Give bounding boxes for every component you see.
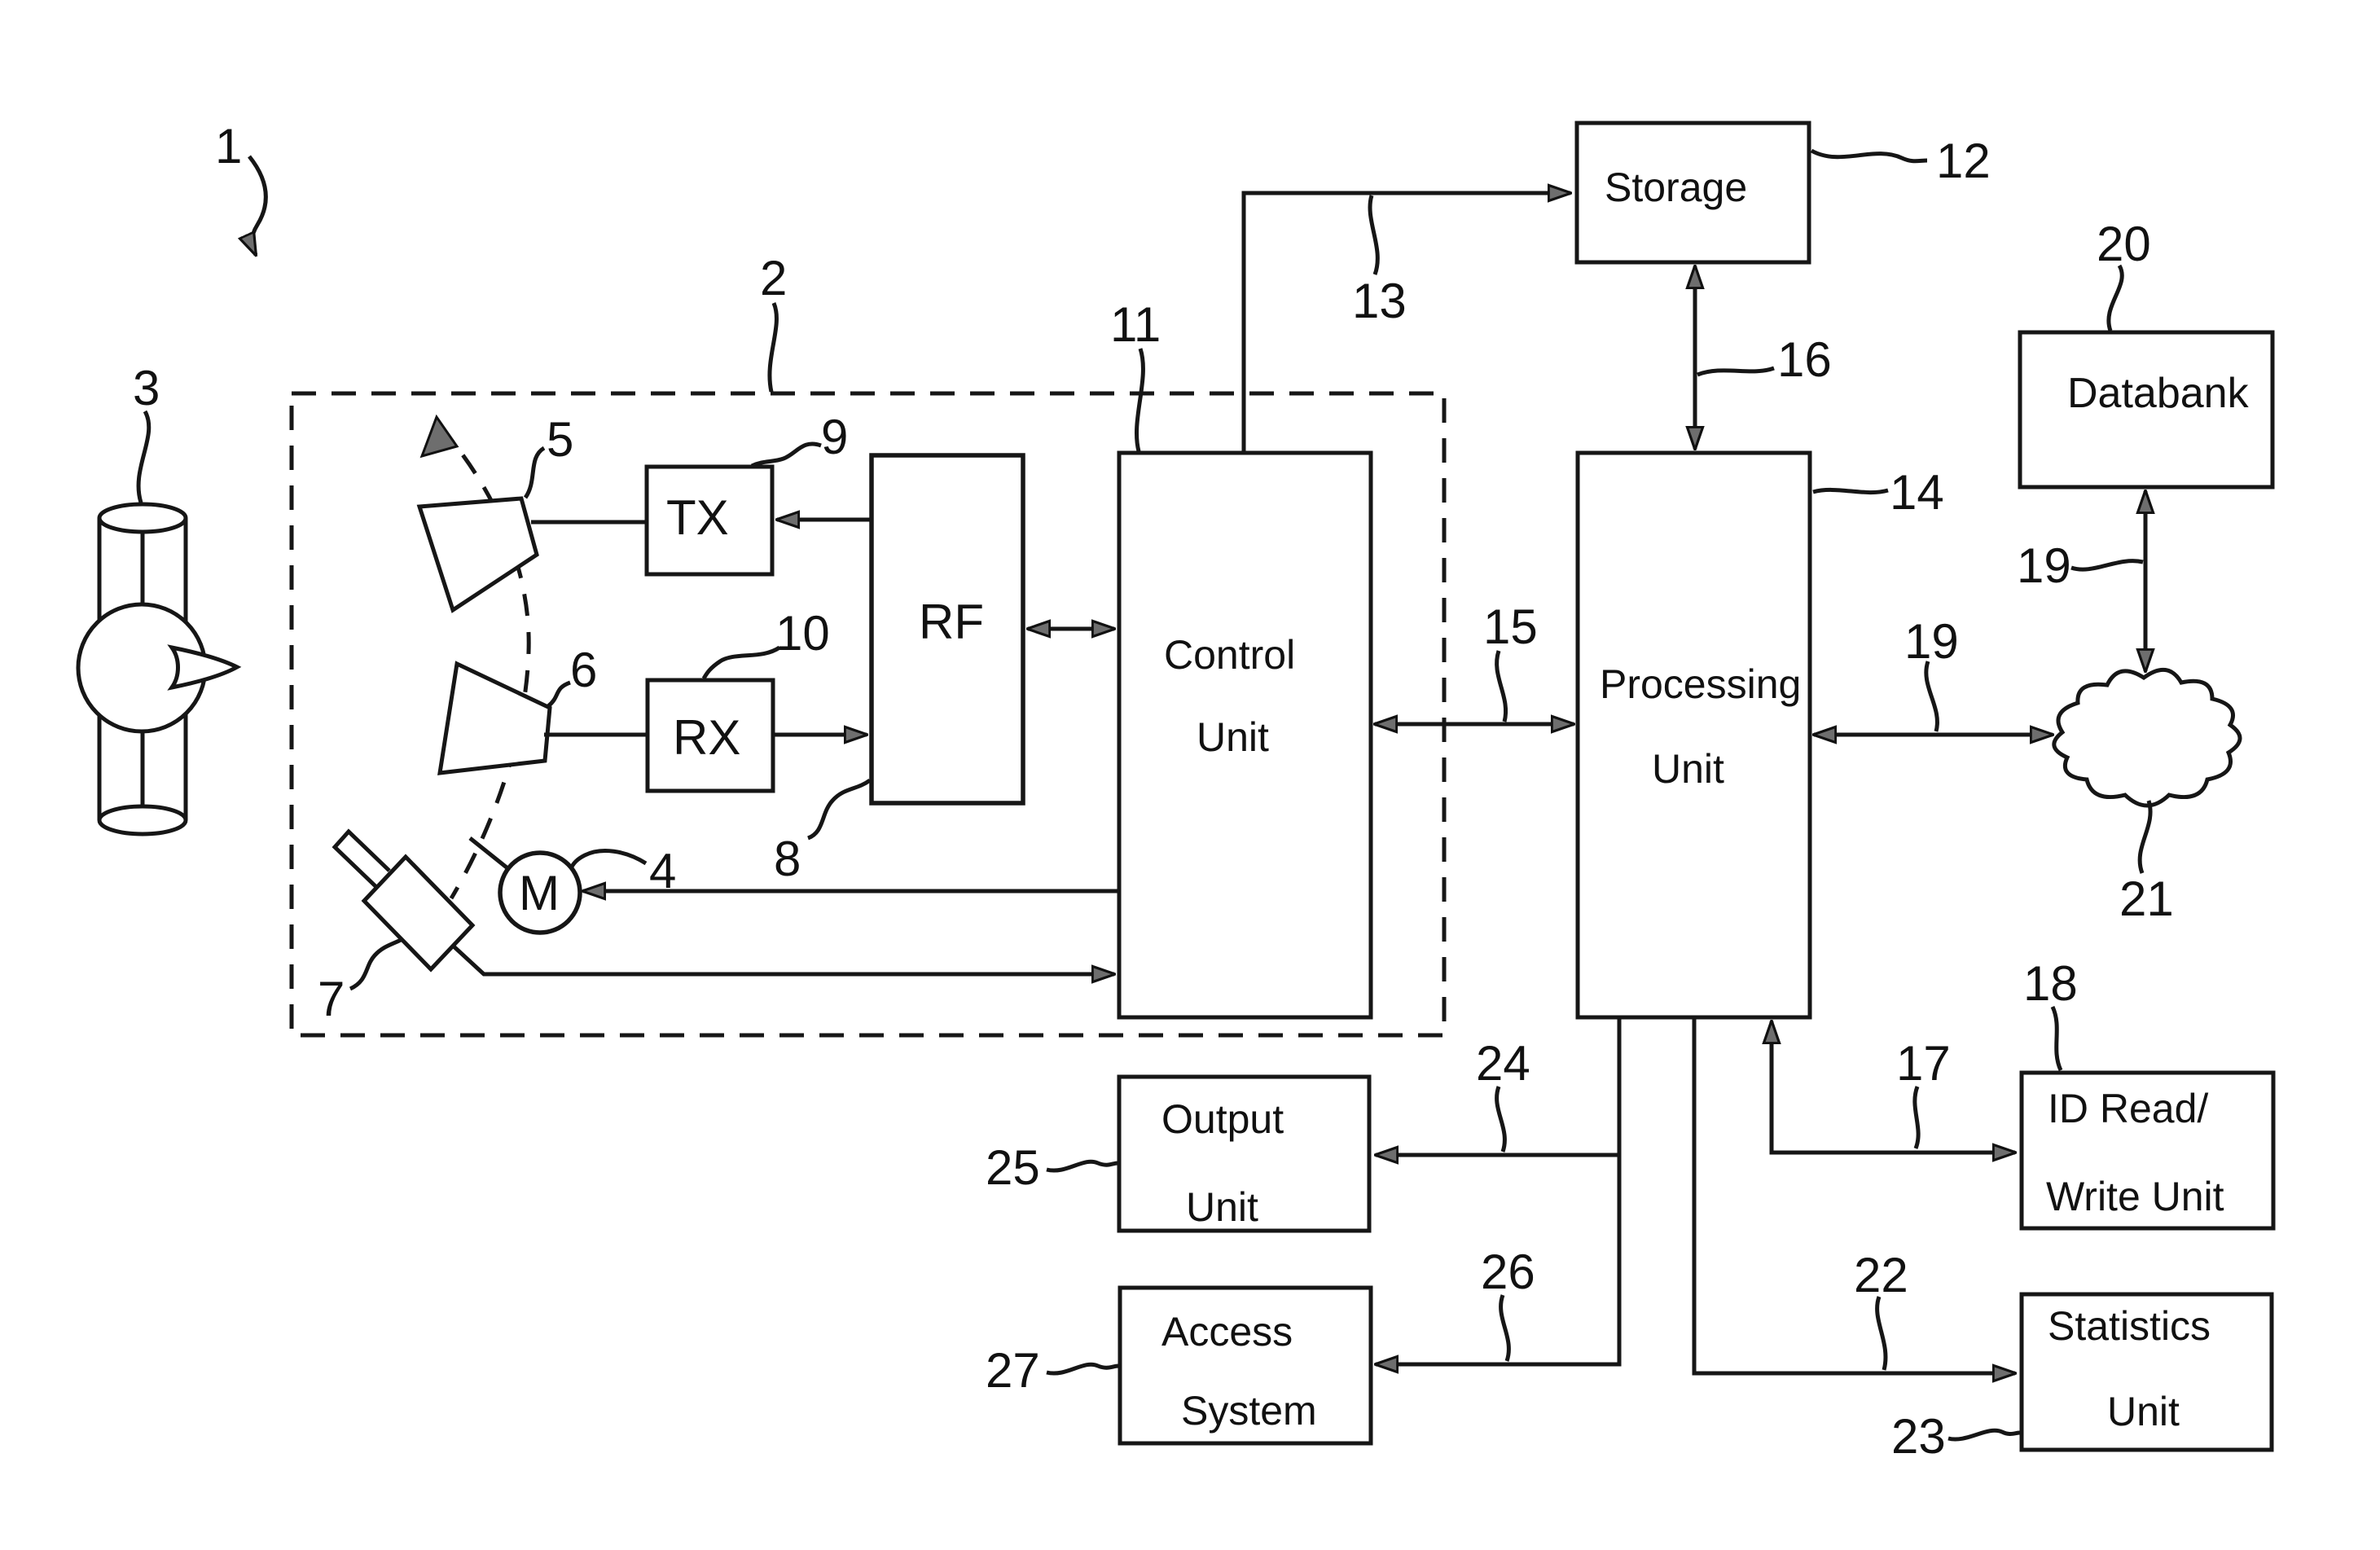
leader squiggle for 9: [752, 444, 821, 466]
label 1: [215, 119, 242, 173]
arrowhead of scan arc: [422, 417, 457, 456]
label 26: [1481, 1245, 1535, 1299]
access system box 27: [1120, 1288, 1371, 1443]
label 7: [318, 972, 345, 1026]
svg-text:16: 16: [1777, 332, 1832, 387]
label 9: [821, 410, 848, 464]
svg-text:System: System: [1181, 1388, 1317, 1434]
svg-text:23: 23: [1891, 1409, 1946, 1464]
svg-text:25: 25: [986, 1140, 1040, 1195]
device 7 (body): [364, 857, 472, 969]
wire databank to cloud 19 (bidirectional): [2144, 491, 2148, 671]
leader squiggle for 23: [1948, 1430, 2020, 1439]
label 11: [1110, 297, 1161, 352]
link from arc to motor: [470, 838, 507, 867]
label 15: [1483, 599, 1538, 654]
label 21: [2119, 872, 2174, 926]
leader squiggle for 2: [770, 303, 777, 392]
svg-text:11: 11: [1110, 297, 1161, 352]
label 18: [2023, 956, 2078, 1011]
label 2: [760, 251, 787, 305]
label 16: [1777, 332, 1832, 387]
device 7 (stub): [335, 832, 389, 886]
leader squiggle for 14: [1813, 490, 1888, 492]
leader squiggle for 3: [138, 411, 149, 503]
label 3: [133, 361, 160, 415]
leader squiggle for 8: [808, 780, 870, 838]
leader squiggle for 10: [704, 648, 779, 678]
label 25: [986, 1140, 1040, 1195]
wire horn6 to RX: [544, 733, 648, 737]
label 13: [1352, 274, 1407, 328]
label 22: [1854, 1248, 1908, 1302]
svg-text:Processing: Processing: [1600, 661, 1801, 707]
wire device 7 to control unit: [453, 946, 1114, 974]
leader squiggle for 5: [525, 448, 544, 498]
leader squiggle for 24: [1497, 1087, 1505, 1152]
wire control unit to processing unit 15 (bidirectional): [1375, 722, 1574, 727]
svg-text:2: 2: [760, 251, 787, 305]
wire processing to ID read/write 17 (bidirectional corner): [1772, 1021, 2015, 1153]
leader squiggle for 15: [1497, 651, 1506, 722]
processing unit box 14: [1578, 453, 1810, 1017]
statistics unit box 23: [2022, 1294, 2272, 1450]
svg-text:20: 20: [2097, 217, 2151, 271]
RF box 8: [872, 455, 1023, 803]
leader squiggle for 18: [2053, 1007, 2061, 1070]
RX box 10: [648, 680, 773, 791]
label 27: [986, 1343, 1040, 1398]
label 23: [1891, 1409, 1946, 1464]
dashed enclosure box 2: [292, 393, 1444, 1035]
TX box 9: [647, 467, 772, 574]
svg-text:Output: Output: [1161, 1096, 1284, 1142]
svg-text:7: 7: [318, 972, 345, 1026]
leader squiggle for 26: [1501, 1295, 1509, 1361]
leader squiggle for 16: [1697, 368, 1774, 375]
cloud 21: [2054, 670, 2240, 806]
svg-text:14: 14: [1890, 465, 1944, 520]
wire processing to output unit 24: [1376, 1017, 1619, 1364]
wire RX to RF: [773, 733, 867, 737]
svg-text:27: 27: [986, 1343, 1040, 1398]
svg-text:24: 24: [1476, 1036, 1530, 1091]
svg-text:6: 6: [570, 643, 597, 697]
storage box 12: [1577, 123, 1809, 262]
svg-text:RF: RF: [919, 595, 984, 649]
databank box 20: [2020, 332, 2272, 487]
label 19 (left): [1904, 614, 1959, 669]
arrowhead for access line: [1376, 1363, 1401, 1367]
label 20: [2097, 217, 2151, 271]
label 5: [547, 412, 573, 467]
leader squiggle for 20: [2109, 266, 2122, 331]
output unit box 25: [1119, 1077, 1369, 1231]
svg-text:19: 19: [2017, 538, 2071, 593]
leader squiggle for 22: [1877, 1297, 1886, 1370]
svg-text:Storage: Storage: [1605, 165, 1747, 210]
leader squiggle for 12: [1811, 151, 1927, 161]
leader squiggle for 4: [571, 851, 646, 868]
label 17: [1896, 1036, 1951, 1091]
wire processing to statistics 22: [1694, 1017, 2015, 1373]
label 14: [1890, 465, 1944, 520]
leader squiggle for 7: [350, 940, 401, 989]
svg-text:15: 15: [1483, 599, 1538, 654]
svg-text:22: 22: [1854, 1248, 1908, 1302]
horn antenna 6: [440, 664, 550, 773]
svg-text:Databank: Databank: [2067, 370, 2250, 417]
label 24: [1476, 1036, 1530, 1091]
object circle with pointer (on cylinder): [78, 604, 237, 731]
svg-text:1: 1: [215, 119, 242, 173]
wire RF to control unit (bidirectional): [1028, 627, 1114, 631]
label 8: [774, 832, 801, 886]
svg-text:RX: RX: [673, 710, 740, 765]
label 6: [570, 643, 597, 697]
svg-text:19: 19: [1904, 614, 1959, 669]
dashed scan arc: [439, 425, 529, 898]
svg-text:Unit: Unit: [1197, 714, 1269, 760]
svg-text:M: M: [519, 866, 560, 920]
leader squiggle for 17: [1915, 1087, 1918, 1148]
svg-text:3: 3: [133, 361, 160, 415]
wire control unit to storage 13: [1244, 193, 1570, 453]
svg-text:26: 26: [1481, 1245, 1535, 1299]
cylinder 3: [99, 504, 186, 834]
leader squiggle for 6: [548, 683, 570, 706]
label 12: [1936, 134, 1991, 188]
svg-text:13: 13: [1352, 274, 1407, 328]
leader squiggle for 19 upper: [2071, 561, 2143, 569]
svg-text:18: 18: [2023, 956, 2078, 1011]
motor M 4: [500, 853, 580, 933]
svg-text:21: 21: [2119, 872, 2174, 926]
svg-text:9: 9: [821, 410, 848, 464]
svg-text:8: 8: [774, 832, 801, 886]
svg-text:5: 5: [547, 412, 573, 467]
label 10: [775, 606, 830, 661]
svg-text:12: 12: [1936, 134, 1991, 188]
svg-text:Unit: Unit: [1652, 746, 1724, 792]
svg-text:Statistics: Statistics: [2048, 1303, 2211, 1349]
leader squiggle for 13: [1370, 195, 1377, 274]
leader arrow for 1: [249, 156, 266, 255]
horn antenna 5: [419, 498, 537, 610]
wire storage to processing 16 (bidirectional): [1693, 266, 1697, 449]
ID read/write unit box 18: [2022, 1073, 2273, 1228]
wire processing to cloud 19 (bidirectional): [1814, 733, 2053, 737]
leader squiggle for 11: [1136, 349, 1143, 451]
svg-text:Unit: Unit: [2107, 1389, 2180, 1434]
control unit box 11: [1119, 453, 1371, 1017]
label 19 (upper): [2017, 538, 2071, 593]
svg-text:ID Read/: ID Read/: [2048, 1086, 2208, 1131]
label 4: [649, 844, 676, 898]
wire RF to TX: [777, 518, 872, 522]
leader squiggle for 27: [1047, 1364, 1118, 1373]
svg-text:Access: Access: [1161, 1309, 1293, 1355]
svg-text:Write Unit: Write Unit: [2046, 1174, 2224, 1219]
leader squiggle for 19 left: [1926, 661, 1938, 731]
svg-text:17: 17: [1896, 1036, 1951, 1091]
svg-text:Unit: Unit: [1186, 1184, 1258, 1230]
svg-text:Control: Control: [1164, 632, 1295, 678]
wire motor M to control unit: [583, 889, 1118, 894]
wire horn5 to TX: [531, 520, 647, 525]
svg-text:TX: TX: [666, 490, 729, 545]
svg-text:10: 10: [775, 606, 830, 661]
leader squiggle for 25: [1047, 1161, 1118, 1170]
leader squiggle for 21: [2140, 801, 2150, 873]
